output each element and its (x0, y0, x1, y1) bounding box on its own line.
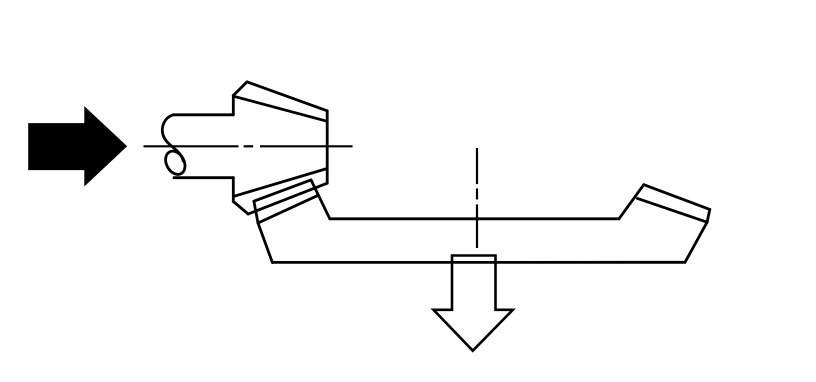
pinion top chamfer (233, 82, 247, 96)
vertical centerline (ring gear axis, dash-dot) (476, 148, 478, 248)
ring gear right outer edge (685, 222, 707, 262)
pinion hub step down (232, 178, 235, 202)
ring gear left tooth band lower line (258, 195, 318, 223)
ring gear left rim face (311, 180, 330, 219)
pinion shaft top line (162, 82, 327, 214)
ring gear right tooth band right edge (707, 209, 710, 222)
shaft break curve (round-bar break arc) (162, 115, 183, 161)
ring gear left tooth band left edge (254, 201, 258, 223)
ring gear right rim face (619, 185, 644, 219)
pinion bottom cone edge (248, 183, 327, 214)
pinion hub step up (232, 96, 235, 115)
ring gear bottom surface (passes through arrow shaft) (272, 261, 685, 264)
pinion face (right vertical edge) (326, 111, 329, 183)
input torque arrow (solid black, pointing right) (29, 107, 127, 185)
ring gear (crown wheel) outline (254, 180, 710, 263)
pinion top tooth line (234, 96, 327, 121)
pinion shaft bottom line (174, 176, 233, 179)
ring gear right tooth band lower line (637, 198, 707, 222)
pinion top cone edge (247, 82, 327, 111)
output arrow (open outline, pointing down) (434, 256, 513, 351)
pinion bottom tooth line (234, 169, 327, 197)
pinion bottom chamfer (233, 202, 248, 215)
ring gear left outer edge (258, 223, 272, 263)
ring gear top surface (330, 217, 619, 220)
ring gear right tooth band upper line (644, 185, 710, 210)
horizontal centerline (pinion axis, dash-dot) (144, 145, 353, 147)
shaft break loop (162, 148, 189, 178)
ring gear left tooth band upper line (254, 180, 311, 201)
